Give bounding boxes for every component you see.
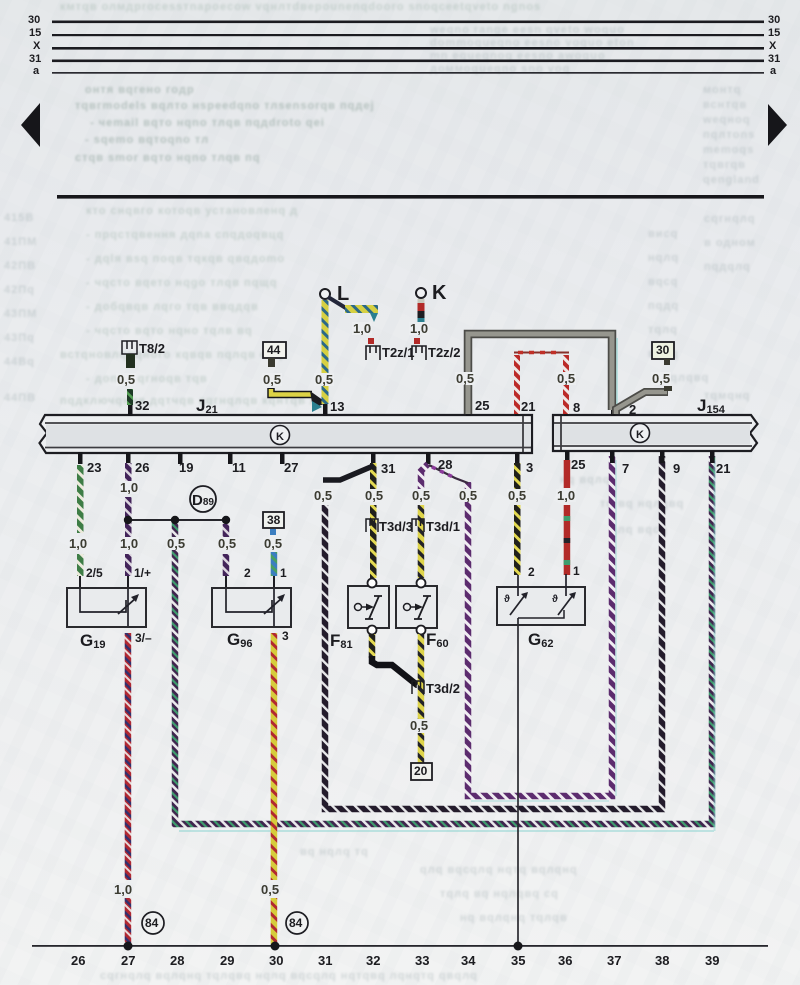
label F81 — [330, 631, 353, 651]
label 0,5 bottom — [260, 883, 280, 896]
wire G19 out to ground 27 (red/blue) — [125, 633, 132, 880]
label pin 21 top — [521, 399, 535, 414]
label pin 1 G96 — [280, 566, 287, 580]
wire pin28 right branch — [429, 465, 468, 483]
ground node 27 — [124, 942, 133, 951]
label T2z/2 — [428, 345, 461, 360]
track number 34 — [461, 953, 475, 968]
label 0,5 rw — [556, 372, 576, 385]
bus line 15 — [52, 34, 764, 36]
bus bar J154 body — [553, 415, 758, 451]
label 30 box — [656, 343, 669, 357]
label 0,5 38 — [263, 537, 283, 550]
label pin 1/+ — [134, 566, 151, 580]
sender G96 box — [212, 588, 291, 627]
label 0,5 d89a — [166, 537, 186, 550]
label X left — [33, 40, 40, 52]
label 1,0 pin23 — [68, 537, 88, 550]
label pin 3 G96 — [282, 629, 289, 643]
ground rail line — [32, 945, 768, 947]
label 1,0 pin26 — [119, 481, 139, 494]
wire F60 out to terminal 20 (yellow/black) — [418, 634, 425, 720]
svg-text:ϑ: ϑ — [552, 594, 558, 605]
wire J154 pin21 to J21 pin8 loop (red/white) — [517, 355, 566, 414]
label pin 2 G62 — [528, 565, 535, 579]
ground node 35 — [514, 942, 523, 951]
label 20 — [414, 764, 427, 778]
connector T3d/2 glyph — [412, 681, 424, 694]
wire F81 out jog to T3d/2 (black) — [369, 634, 376, 658]
label 15 left — [29, 27, 41, 39]
track number 26 — [71, 953, 85, 968]
label pin 28 — [438, 457, 452, 472]
wire G62 to ground 35 (thin) — [517, 618, 519, 946]
label 0,5 F60 — [409, 719, 429, 732]
label 30 left — [28, 14, 40, 26]
label X right — [769, 40, 776, 52]
terminal box 44 — [263, 342, 286, 358]
wire 38 to G96 pin1 (blue/green) — [271, 552, 278, 576]
bus bar J154 internal K circle — [631, 424, 650, 443]
svg-text:K: K — [276, 431, 284, 443]
fuse F81 box — [348, 579, 389, 635]
junction wire D89 horizontal — [128, 519, 226, 521]
label D89 — [192, 492, 214, 509]
terminal L circle — [320, 289, 330, 299]
label 15 right — [768, 27, 780, 39]
label 0,5 d89b — [217, 537, 237, 550]
separator thick line — [57, 195, 764, 199]
label 0,5 w31b — [364, 489, 384, 502]
label pin 32 — [135, 398, 149, 413]
connector T3d/3 glyph — [366, 519, 378, 532]
wire pin31 zigzag branch — [323, 466, 373, 480]
bus line a — [52, 72, 764, 74]
label 0,5 w28a — [411, 489, 431, 502]
label J21 — [196, 396, 218, 416]
terminal box 38 — [263, 512, 284, 528]
terminal box 30 — [652, 342, 674, 359]
track number 36 — [558, 953, 572, 968]
label pin 21b — [716, 461, 730, 476]
label pin 25b — [571, 457, 585, 472]
label 38 — [267, 513, 280, 527]
label pin 25 top — [475, 398, 489, 413]
label pin 31b — [381, 461, 395, 476]
label 1,0 K — [409, 322, 429, 335]
track number 27 — [121, 953, 135, 968]
wire J21 pin23 to G19 pin2/5 (green/white) — [77, 465, 84, 533]
ground symbol 84 right — [286, 912, 308, 934]
terminal K circle — [416, 288, 426, 298]
label a right — [770, 65, 776, 77]
label G62 — [528, 630, 553, 650]
connector T2z/1 glyph — [366, 338, 380, 360]
label pin 23 — [87, 460, 101, 475]
wire T8/2 to J21 pin32 (black/green) — [127, 389, 133, 405]
J21 top pin ticks 32,13,25,21 — [128, 403, 520, 416]
track number 28 — [170, 953, 184, 968]
J154 top pin ticks 8,2 — [564, 403, 616, 416]
label pin 9 — [673, 461, 680, 476]
label pin 19 — [179, 460, 193, 475]
wire J21 pin31 branch to J154 pin9 (black/white) — [325, 456, 662, 809]
label T3d/2 — [426, 681, 460, 696]
track number 31 — [318, 953, 332, 968]
track number 29 — [220, 953, 234, 968]
label J154 — [697, 396, 725, 416]
label 84 right — [289, 916, 302, 930]
bus line 30 — [52, 21, 764, 24]
left page arrow — [21, 103, 40, 147]
track number 39 — [705, 953, 719, 968]
label 0,5 w31a — [313, 489, 333, 502]
label pin 3/- — [135, 631, 152, 645]
wire T3d/1 to F60 (yellow/black) — [418, 505, 425, 578]
wire J21 pin28 branch to J154 pin7 (violet/white) — [468, 456, 612, 796]
J21 bottom pin ticks — [78, 452, 520, 464]
label 30 right — [768, 14, 780, 26]
label a left — [33, 65, 39, 77]
track number 33 — [415, 953, 429, 968]
ground node 30 — [271, 942, 280, 951]
wire L right branch (yellow/blue) — [328, 297, 349, 310]
connector T2z/2 glyph — [412, 338, 426, 360]
wire 30 to J154 pin2 (gray) — [616, 392, 668, 414]
label pin 2/5 — [86, 566, 103, 580]
label pin 7 — [622, 461, 629, 476]
bus bar J21 internal K circle — [271, 426, 290, 445]
label T3d/1 — [426, 519, 460, 534]
J154 bottom pin ticks — [565, 451, 715, 463]
track number 35 — [511, 953, 525, 968]
label pin 11 — [232, 460, 246, 475]
label T2z/1 — [382, 345, 415, 360]
label 1,0 bottom left — [113, 883, 133, 896]
sender G19 box — [67, 588, 146, 627]
terminal box 20 — [411, 763, 432, 780]
wire J21 pin26 to G19 pin1/+ (violet/white) — [125, 463, 132, 483]
bus bar J21 body — [40, 415, 533, 453]
label 0,5 w28b — [458, 489, 478, 502]
label pin 1 G62 — [573, 564, 580, 578]
wire junction to G96 pin2 (violet/white) — [223, 524, 230, 538]
connector T3d/1 glyph — [412, 519, 424, 532]
label pin 13 — [330, 399, 344, 414]
track number 37 — [607, 953, 621, 968]
node label D89 circle — [190, 486, 216, 512]
label G19 — [80, 631, 105, 651]
wire K down (red/black) — [418, 299, 425, 306]
track number 32 — [366, 953, 380, 968]
label 44 — [267, 343, 280, 357]
bus line 31 — [52, 60, 764, 63]
node junction dots — [124, 516, 132, 524]
label 0,5 T8/2 — [116, 373, 136, 386]
wire 44 to J21 pin13 (yellow) — [271, 388, 312, 395]
label 31 right — [768, 53, 780, 65]
svg-text:K: K — [636, 429, 644, 441]
wire J21 pin28 stub (violet/white) — [421, 464, 428, 490]
connector T8/2 glyph — [122, 341, 137, 354]
track number 38 — [655, 953, 669, 968]
wire J21 pin3 to G62 pin2 (black/yellow) — [514, 463, 521, 490]
label pin 27 — [284, 460, 298, 475]
label T3d/3 — [379, 519, 413, 534]
wire D89 junction to J154 pin21 (violet/green) — [175, 456, 712, 824]
label terminal L — [337, 283, 349, 306]
label pin 2 — [629, 402, 636, 417]
sensor G62 box — [497, 574, 585, 625]
label pin 3 — [526, 460, 533, 475]
label 0,5 30wire — [651, 372, 671, 385]
wire J21 pin25 to J154 pin2 (gray loop) — [468, 334, 612, 414]
svg-text:ϑ: ϑ — [504, 594, 510, 605]
label 31 left — [29, 53, 41, 65]
wire J154 pin25 to G62 pin1 (red) — [564, 460, 571, 488]
ground symbol 84 left — [142, 912, 164, 934]
bus line X — [52, 47, 764, 50]
right page arrow — [768, 104, 787, 146]
fuse F60 box — [396, 579, 437, 635]
label 1,0 pin25 — [556, 489, 576, 502]
wire pin31 to F81 via T3d/3 (black/yellow) — [370, 505, 377, 578]
track number 30 — [269, 953, 283, 968]
label pin 2 G96 — [244, 566, 251, 580]
label 0,5 pin3 — [507, 489, 527, 502]
label 0,5 gray — [455, 372, 475, 385]
label 84 left — [145, 916, 158, 930]
label terminal K — [432, 282, 446, 305]
label 1,0 L — [352, 322, 372, 335]
label pin 8 — [573, 400, 580, 415]
wire L down to J21 pin13 (yellow/blue) — [322, 300, 329, 404]
label pin 26 — [135, 460, 149, 475]
label F60 — [426, 630, 449, 650]
wire J21 pin31 stub (black/yellow) — [370, 463, 377, 490]
label G96 — [227, 630, 252, 650]
label 0,5 L — [314, 373, 334, 386]
label T8/2 — [139, 341, 165, 356]
label 0,5 44 — [262, 373, 282, 386]
wire G96 out to ground 30 (yellow/red) — [271, 633, 278, 880]
label 1,0 G19 — [119, 537, 139, 550]
